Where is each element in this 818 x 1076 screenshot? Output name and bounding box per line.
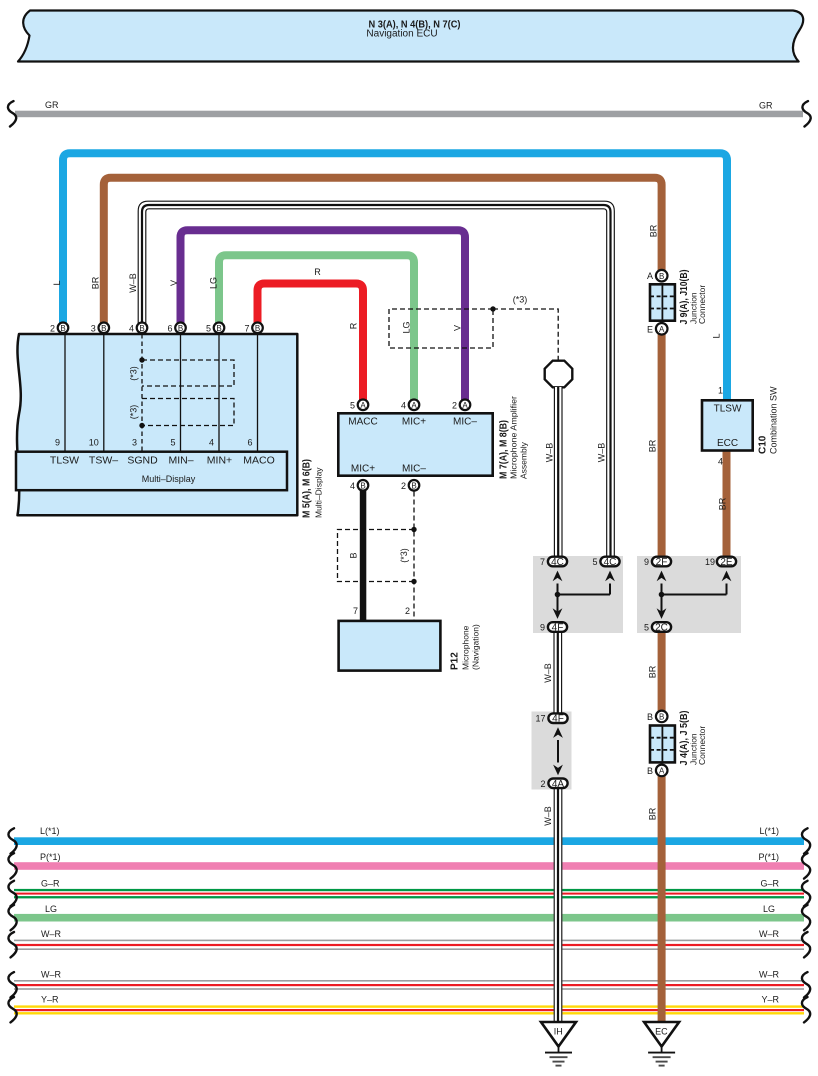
up arrow under 19-2E xyxy=(722,571,732,582)
svg-text:2C: 2C xyxy=(655,623,668,634)
down arrow above 2-4A xyxy=(553,765,563,776)
svg-text:7: 7 xyxy=(244,324,249,334)
svg-text:W–B: W–B xyxy=(543,663,553,683)
svg-text:(*3): (*3) xyxy=(513,295,528,305)
svg-text:(*3): (*3) xyxy=(129,366,139,381)
svg-text:Multi–Display: Multi–Display xyxy=(314,467,324,518)
svg-text:B: B xyxy=(139,324,144,333)
svg-text:9: 9 xyxy=(540,623,545,633)
svg-text:LG: LG xyxy=(763,904,775,914)
wire BR from J9 A to 9-2F xyxy=(658,334,666,556)
shield octagon symbol xyxy=(545,361,573,388)
Navigation ECU banner N 3(A), N 4(B), N 7(C) xyxy=(18,11,803,62)
pin line SGND pin 3 dashed xyxy=(141,334,143,452)
pin 2(B) circle xyxy=(58,323,69,334)
dashed option box around B wire xyxy=(338,530,415,582)
pin 2(B) circle bottom xyxy=(409,480,420,491)
svg-text:5: 5 xyxy=(350,401,355,411)
wire BR from J4 A to ground EC xyxy=(658,776,666,1023)
svg-text:B: B xyxy=(360,482,365,491)
svg-text:Navigation ECU: Navigation ECU xyxy=(366,29,437,40)
svg-text:IH: IH xyxy=(554,1027,563,1037)
Microphone Amplifier Assembly box M 7(A), M 8(B) xyxy=(338,413,492,475)
svg-text:W–R: W–R xyxy=(759,929,780,939)
wire BR from C10 pin 4 to 19-2E xyxy=(723,452,731,557)
wire W-B from 2-4A to ground IH : white body xyxy=(554,784,563,1023)
internal dashed option box 1 xyxy=(142,360,234,386)
P12 Microphone (Navigation) box xyxy=(339,621,441,671)
C10 Combination SW box xyxy=(702,400,753,450)
svg-text:3: 3 xyxy=(91,324,96,334)
ground EC triangle xyxy=(644,1022,679,1047)
svg-text:LG: LG xyxy=(209,277,219,289)
oval terminal 17 (4F) xyxy=(548,713,567,723)
svg-text:7: 7 xyxy=(353,606,358,616)
svg-text:B: B xyxy=(216,324,221,333)
svg-text:TSW–: TSW– xyxy=(89,455,118,467)
svg-text:3: 3 xyxy=(132,438,137,448)
svg-text:MIC–: MIC– xyxy=(453,417,477,428)
svg-text:V: V xyxy=(169,280,179,286)
svg-text:W–B: W–B xyxy=(597,443,607,463)
svg-text:W–B: W–B xyxy=(543,806,553,826)
break symbol W-R left 2 xyxy=(8,972,16,997)
svg-text:2F: 2F xyxy=(656,557,668,568)
svg-text:R: R xyxy=(314,267,321,277)
svg-text:Assembly: Assembly xyxy=(519,441,529,479)
svg-text:MACC: MACC xyxy=(348,417,377,428)
svg-text:W–R: W–R xyxy=(41,929,62,939)
svg-text:(*3): (*3) xyxy=(129,405,139,420)
up arrow under 5-4C xyxy=(605,571,615,582)
pin 3(B) circle xyxy=(99,323,110,334)
wire P(*1) horizontal bus xyxy=(14,862,804,870)
svg-text:P(*1): P(*1) xyxy=(40,852,61,862)
dashed option box around LG and V wires xyxy=(389,309,493,348)
ground EC stem xyxy=(661,1044,663,1053)
svg-text:Combination SW: Combination SW xyxy=(769,386,779,454)
svg-text:B: B xyxy=(255,324,260,333)
svg-text:L: L xyxy=(52,280,62,285)
pin line MIN- pin 5 xyxy=(180,334,182,452)
junction connector J 9(A), J10(B) grid xyxy=(650,284,675,320)
svg-text:2: 2 xyxy=(540,779,545,789)
svg-text:A: A xyxy=(462,401,468,410)
svg-text:10: 10 xyxy=(89,438,99,448)
break symbol W-R left 1 xyxy=(8,932,16,957)
wire GR horizontal xyxy=(15,111,803,118)
svg-text:4: 4 xyxy=(129,324,134,334)
svg-text:BR: BR xyxy=(718,497,728,510)
internal dashed option box 2 xyxy=(142,399,234,426)
svg-text:2: 2 xyxy=(405,606,410,616)
ground EC hatch lines xyxy=(648,1052,675,1054)
svg-text:TLSW: TLSW xyxy=(714,404,742,415)
junction dot option box 2 xyxy=(139,423,144,428)
svg-text:2: 2 xyxy=(452,401,457,411)
svg-text:4: 4 xyxy=(401,401,406,411)
junction dot block A xyxy=(555,592,561,598)
pin 5(B) circle xyxy=(214,323,225,334)
pin 4(B) circle bottom xyxy=(358,480,369,491)
dashed wire from dot to shield symbol xyxy=(493,309,558,360)
svg-text:P12: P12 xyxy=(450,652,461,670)
svg-text:BR: BR xyxy=(648,665,658,678)
svg-text:Connector: Connector xyxy=(697,285,707,324)
svg-text:Microphone Amplifier: Microphone Amplifier xyxy=(509,396,519,479)
junction connector J 4(A), J 5(B) grid xyxy=(650,726,675,763)
svg-text:6: 6 xyxy=(247,438,252,448)
svg-text:B: B xyxy=(659,713,664,722)
wire Y-R horizontal bus xyxy=(14,1005,804,1007)
svg-text:(*3): (*3) xyxy=(399,548,409,563)
svg-text:MACO: MACO xyxy=(243,455,275,467)
wire W-B from pin 4(B) to connector 5-4C : white body xyxy=(142,205,611,556)
svg-text:MIN+: MIN+ xyxy=(207,455,232,467)
pin 4(B) circle xyxy=(137,323,148,334)
svg-text:A: A xyxy=(659,767,665,776)
break symbol G-R left xyxy=(8,881,16,906)
oval terminal 2 (4A) xyxy=(548,779,567,789)
connector pass block 4C/4F gray background xyxy=(533,556,623,633)
J4 pin B circle xyxy=(656,711,668,723)
pin line TLSW pin 9 xyxy=(64,334,66,452)
up arrow under 9-2F xyxy=(657,571,667,582)
svg-text:EC: EC xyxy=(655,1027,668,1037)
break symbol LG left xyxy=(8,905,16,930)
svg-text:L(*1): L(*1) xyxy=(759,826,779,836)
svg-text:(Navigation): (Navigation) xyxy=(471,624,481,670)
wire L cyan from pin 2(B) to C10 pin 1 xyxy=(63,153,727,400)
junction dot block B xyxy=(659,592,665,598)
break symbol LG right xyxy=(802,905,810,930)
svg-text:B: B xyxy=(178,324,183,333)
svg-text:4F: 4F xyxy=(552,714,564,725)
svg-text:MIC+: MIC+ xyxy=(402,417,426,428)
svg-text:W–R: W–R xyxy=(41,969,62,979)
wire V purple from pin 6(B) to mic amp pin 2(A) xyxy=(181,230,466,400)
svg-text:2: 2 xyxy=(50,324,55,334)
wire G-R horizontal bus xyxy=(14,889,804,891)
svg-text:4: 4 xyxy=(350,481,355,491)
svg-text:B: B xyxy=(101,324,106,333)
connector pass block 2F-2E/2C gray background xyxy=(637,556,741,633)
svg-text:ECC: ECC xyxy=(717,438,738,449)
block C internal link line xyxy=(557,740,559,763)
up arrow under 7-4C xyxy=(553,571,563,582)
oval terminal 19 (2E) xyxy=(717,557,736,567)
svg-text:4C: 4C xyxy=(604,557,617,568)
pin line MIN+ pin 4 xyxy=(218,334,220,452)
pin 4(A) circle xyxy=(409,400,420,411)
pin 5(A) circle xyxy=(358,400,369,411)
svg-text:B: B xyxy=(60,324,65,333)
svg-text:TLSW: TLSW xyxy=(50,455,79,467)
svg-text:B: B xyxy=(647,766,653,776)
svg-text:4A: 4A xyxy=(552,779,565,790)
svg-text:5: 5 xyxy=(170,438,175,448)
svg-text:7: 7 xyxy=(540,557,545,567)
wire W-B from 9-4F to 17-4F : white body xyxy=(553,632,562,717)
svg-text:MIN–: MIN– xyxy=(168,455,193,467)
svg-text:4: 4 xyxy=(718,457,723,467)
svg-text:B: B xyxy=(659,272,664,281)
oval terminal 7 (4C) xyxy=(548,557,567,567)
svg-text:Y–R: Y–R xyxy=(761,994,779,1004)
svg-text:W–R: W–R xyxy=(759,969,780,979)
up arrow under 17-4F xyxy=(553,727,563,738)
svg-text:B: B xyxy=(411,482,416,491)
svg-text:4C: 4C xyxy=(551,557,564,568)
svg-text:LG: LG xyxy=(402,321,412,333)
J9 pin A circle xyxy=(656,323,668,335)
break symbol W-R right 1 xyxy=(802,932,810,957)
wire W-B right outline xyxy=(146,209,607,556)
svg-text:B: B xyxy=(349,552,359,558)
oval terminal 5 (4C) xyxy=(600,557,619,567)
ground IH triangle xyxy=(541,1022,576,1047)
down arrow above 5-2C xyxy=(657,608,667,619)
svg-text:BR: BR xyxy=(648,439,658,452)
svg-text:G–R: G–R xyxy=(41,878,60,888)
svg-text:L: L xyxy=(712,333,722,338)
svg-text:A: A xyxy=(647,271,653,281)
J4 pin A circle xyxy=(656,765,668,777)
wire W-B black stripe xyxy=(142,205,611,556)
svg-text:MIC–: MIC– xyxy=(402,464,426,475)
break symbol GR right xyxy=(802,101,810,126)
svg-text:MIC+: MIC+ xyxy=(351,464,375,475)
ground IH stem xyxy=(558,1044,560,1053)
wire BR brown from pin 3(B) to J9 junction connector xyxy=(104,178,662,330)
svg-text:A: A xyxy=(659,325,665,334)
svg-text:4: 4 xyxy=(209,438,214,448)
svg-text:Connector: Connector xyxy=(697,726,707,765)
svg-text:Y–R: Y–R xyxy=(41,994,59,1004)
junction dot bottom xyxy=(411,579,416,584)
svg-text:BR: BR xyxy=(648,807,658,820)
svg-text:Multi–Display: Multi–Display xyxy=(142,474,196,484)
svg-text:6: 6 xyxy=(167,324,172,334)
J9 pin B circle xyxy=(656,270,668,282)
break symbol Y-R left xyxy=(8,997,16,1022)
oval terminal 5 (2C) xyxy=(652,622,671,632)
svg-text:C10: C10 xyxy=(758,435,769,454)
wire W-R horizontal bus 1 xyxy=(14,940,804,942)
pin 2(A) circle xyxy=(460,400,471,411)
break symbol G-R right xyxy=(802,881,810,906)
wire R red from pin 7(B) to mic amp pin 5(A) xyxy=(258,284,364,401)
Multi-Display component box M 5(A), M 6(B) xyxy=(17,334,297,515)
svg-text:P(*1): P(*1) xyxy=(758,852,779,862)
svg-text:9: 9 xyxy=(55,438,60,448)
svg-text:2: 2 xyxy=(401,481,406,491)
svg-text:4F: 4F xyxy=(552,623,564,634)
oval terminal 9 (4F) xyxy=(548,622,567,632)
svg-text:GR: GR xyxy=(45,100,59,110)
oval terminal 9 (2F) xyxy=(652,557,671,567)
block B internal link lines xyxy=(661,584,663,612)
break symbol Y-R right xyxy=(802,997,810,1022)
pin line TSW- pin 10 xyxy=(103,334,105,452)
svg-text:M 5(A), M 6(B): M 5(A), M 6(B) xyxy=(302,459,313,518)
wire L(*1) horizontal bus xyxy=(14,837,804,845)
pin 6(B) circle xyxy=(175,323,186,334)
break symbol P(*1) left xyxy=(8,853,16,878)
wire W-B shielded from octagon to 7-4C : white body xyxy=(554,387,563,556)
wire B black from mic amp 4(B) to P12 pin 7 xyxy=(360,491,367,621)
svg-text:W–B: W–B xyxy=(128,273,138,293)
junction dot option box 1 xyxy=(139,357,144,362)
svg-text:2E: 2E xyxy=(720,557,733,568)
svg-text:W–B: W–B xyxy=(545,443,555,463)
wire W-R horizontal bus 2 xyxy=(14,980,804,982)
svg-text:17: 17 xyxy=(535,714,545,724)
svg-text:Microphone: Microphone xyxy=(461,625,471,670)
break symbol GR left xyxy=(8,101,16,126)
svg-text:19: 19 xyxy=(705,557,715,567)
svg-text:L(*1): L(*1) xyxy=(40,826,60,836)
junction dot top xyxy=(411,527,416,532)
dashed wire from mic amp 2(B) to P12 pin 2 xyxy=(413,492,415,621)
inner terminal box xyxy=(16,452,287,491)
svg-text:LG: LG xyxy=(45,904,57,914)
wire LG green from pin 5(B) to mic amp pin 4(A) xyxy=(219,255,414,400)
svg-text:BR: BR xyxy=(649,224,659,237)
svg-text:G–R: G–R xyxy=(760,878,779,888)
pin line MACO pin 6 xyxy=(257,334,259,452)
break symbol P(*1) right xyxy=(802,853,810,878)
svg-text:5: 5 xyxy=(644,623,649,633)
svg-text:SGND: SGND xyxy=(127,455,158,467)
wire BR from 5-2C to J4 B xyxy=(658,632,666,711)
svg-text:BR: BR xyxy=(91,276,101,289)
pin 7(B) circle xyxy=(252,323,263,334)
svg-text:GR: GR xyxy=(759,100,773,110)
svg-text:5: 5 xyxy=(592,557,597,567)
svg-text:1: 1 xyxy=(718,386,723,396)
break symbol L(*1) left xyxy=(8,828,16,853)
svg-text:9: 9 xyxy=(644,557,649,567)
down arrow above 9-4F xyxy=(553,608,563,619)
block A internal link lines xyxy=(557,584,559,612)
wire LG horizontal bus xyxy=(14,914,804,922)
svg-text:E: E xyxy=(647,324,653,334)
svg-text:A: A xyxy=(411,401,417,410)
svg-text:B: B xyxy=(647,712,653,722)
break symbol W-R right 2 xyxy=(802,972,810,997)
wire W-B left outline xyxy=(138,201,614,556)
svg-text:V: V xyxy=(453,325,463,331)
svg-text:R: R xyxy=(349,322,359,329)
break symbol L(*1) right xyxy=(802,828,810,853)
svg-text:A: A xyxy=(360,401,366,410)
connector pass block 4F/4A gray background xyxy=(532,712,572,790)
ground IH hatch lines xyxy=(545,1052,572,1054)
junction dot on dashed box corner xyxy=(490,306,495,311)
svg-text:5: 5 xyxy=(206,324,211,334)
